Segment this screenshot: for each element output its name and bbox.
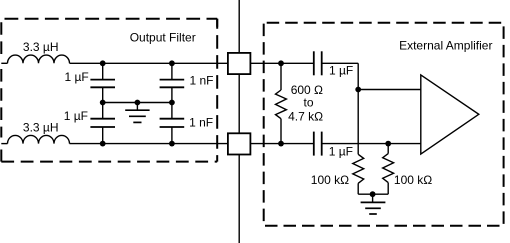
resistor R3 100 kohm (right) xyxy=(383,144,394,195)
wire ground rail xyxy=(358,193,388,195)
svg-text:100 kΩ: 100 kΩ xyxy=(311,173,349,187)
External Amplifier dashed box xyxy=(264,23,504,226)
capacitor C1 1 uF (top left column) xyxy=(90,63,115,102)
pad terminal 2 xyxy=(228,133,251,154)
resistor R1 600 ohm to 4.7 kohm xyxy=(276,63,287,143)
wire row1 left stub xyxy=(1,62,7,64)
node junction row2 R1 bottom xyxy=(278,141,284,147)
svg-text:1 nF: 1 nF xyxy=(190,74,214,88)
svg-text:3.3 µH: 3.3 µH xyxy=(23,40,59,54)
capacitor C2 1 nF (top right column) xyxy=(160,63,185,102)
wire row1 amp segment b xyxy=(322,62,359,64)
node junction R3 top xyxy=(385,141,391,147)
Output Filter dashed box xyxy=(1,19,217,162)
capacitor C3 1 uF (bottom left column) xyxy=(90,103,115,144)
svg-text:External Amplifier: External Amplifier xyxy=(399,39,492,53)
wire vertical bus (device boundary line) xyxy=(238,0,240,243)
wire row2 filter rail xyxy=(70,143,228,145)
svg-text:Output Filter: Output Filter xyxy=(130,31,196,45)
node junction plus input xyxy=(355,87,361,93)
wire row1 amp segment a xyxy=(250,62,313,64)
svg-text:1 µF: 1 µF xyxy=(65,70,89,84)
node junction row2 colA xyxy=(100,141,106,147)
inductor L2 3.3 uH xyxy=(8,135,70,143)
ground (amplifier) xyxy=(361,194,386,214)
wire row2 amp segment a xyxy=(250,143,313,145)
ground (filter) xyxy=(125,103,149,123)
node junction mid colB xyxy=(169,100,175,106)
wire vertical plus-input node xyxy=(357,63,359,154)
capacitor C6 1 uF (series, row2) xyxy=(314,132,322,156)
capacitor C5 1 uF (series, row1) xyxy=(314,51,322,75)
node junction mid colA xyxy=(100,100,106,106)
svg-text:1 nF: 1 nF xyxy=(189,115,213,129)
svg-text:4.7 kΩ: 4.7 kΩ xyxy=(288,109,323,123)
node junction row1 colA xyxy=(100,60,106,66)
resistor R2 100 kohm (left) xyxy=(353,154,364,194)
node junction row1 colB xyxy=(169,60,175,66)
svg-text:3.3 µH: 3.3 µH xyxy=(23,120,59,134)
inductor L1 3.3 uH xyxy=(8,55,70,63)
pad terminal 1 xyxy=(228,53,251,74)
wire row2 amp segment b (minus input to amp) xyxy=(322,143,421,145)
svg-text:100 kΩ: 100 kΩ xyxy=(394,173,432,187)
wire row1 filter rail xyxy=(70,62,228,64)
node junction row2 colB xyxy=(169,141,175,147)
op-amp U1 (external amplifier triangle) xyxy=(421,75,479,154)
node junction row1 R1 top xyxy=(278,60,284,66)
svg-text:1 µF: 1 µF xyxy=(329,145,353,159)
wire row2 left stub xyxy=(1,143,7,145)
svg-text:to: to xyxy=(304,95,314,109)
node junction mid ground xyxy=(135,100,141,106)
node junction ground xyxy=(370,191,376,197)
svg-text:1 µF: 1 µF xyxy=(329,63,353,77)
svg-text:1 µF: 1 µF xyxy=(64,109,88,123)
wire plus input to amp xyxy=(358,89,421,91)
capacitor C4 1 nF (bottom right column) xyxy=(160,103,185,144)
wire middle rail xyxy=(103,102,172,104)
